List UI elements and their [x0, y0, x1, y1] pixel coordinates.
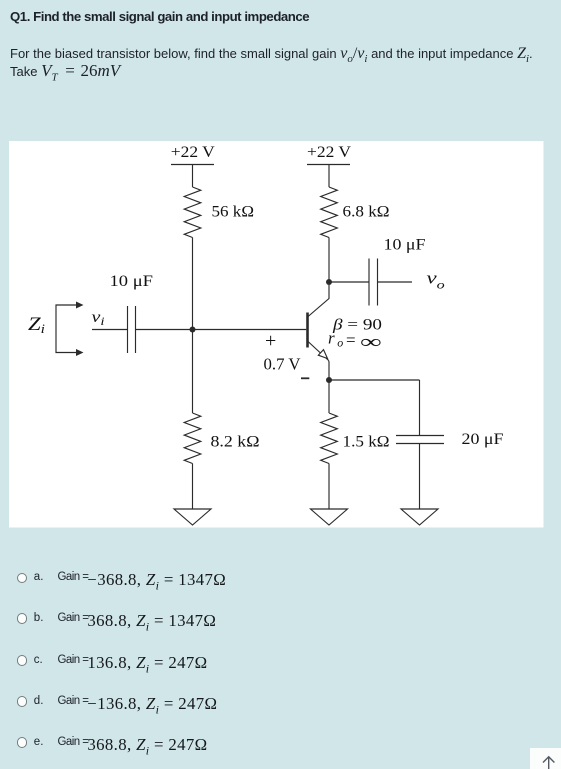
svg-text:o: o — [337, 335, 343, 349]
resistor R1 56k — [184, 187, 201, 238]
label minus — [301, 377, 309, 379]
transistor Q1 emitter arrow — [318, 350, 327, 359]
label Zi — [28, 314, 45, 336]
label 1.5 kOhm — [343, 434, 390, 451]
svg-text:56 kΩ: 56 kΩ — [212, 204, 255, 221]
label vo — [427, 269, 445, 292]
wire emitter to node — [328, 361, 330, 381]
capacitor C2 10uF output — [368, 259, 370, 306]
label 8.2 kOhm — [211, 434, 260, 451]
label beta = 90 — [332, 317, 382, 334]
supply +22V right label — [307, 144, 351, 161]
wire supply-left to R1 — [192, 165, 194, 188]
svg-text:+22 V: +22 V — [307, 144, 351, 161]
label 20 uF — [462, 431, 504, 448]
resistor R2 8.2k — [184, 413, 201, 464]
ground middle — [311, 509, 348, 525]
wire R1 to R2 through base node — [192, 238, 194, 414]
wire C2 to output — [378, 281, 413, 283]
svg-text:10 μF: 10 μF — [384, 237, 426, 254]
label plus — [265, 330, 276, 352]
svg-text:20 μF: 20 μF — [462, 431, 504, 448]
svg-text:6.8 kΩ: 6.8 kΩ — [343, 204, 390, 221]
node collector junction — [326, 279, 332, 285]
option d — [0, 692, 561, 716]
option e — [0, 733, 561, 757]
ground left — [174, 509, 211, 525]
wire supply-right to R3 — [328, 165, 330, 188]
transistor Q1 base bar — [306, 313, 309, 348]
svg-text:r: r — [328, 329, 335, 348]
wire collector node to C2 — [329, 281, 369, 283]
option c — [0, 651, 561, 675]
svg-text:+22 V: +22 V — [171, 144, 215, 161]
label 10 uF input — [110, 273, 154, 290]
option a — [0, 568, 561, 592]
wire R3 to collector node — [328, 238, 330, 283]
title — [10, 9, 309, 24]
label ro = inf — [328, 329, 382, 353]
wire R2 to ground — [192, 464, 194, 510]
label 6.8 kOhm — [343, 204, 390, 221]
svg-text:∞: ∞ — [360, 332, 382, 353]
ground right — [401, 509, 438, 525]
capacitor C3 20uF — [396, 435, 444, 437]
label 10 uF output — [384, 237, 426, 254]
wire C1 to base — [136, 329, 307, 331]
paragraph — [10, 45, 558, 80]
node emitter junction — [326, 377, 332, 383]
label 0.7 V — [264, 354, 302, 373]
wire down to C3 — [419, 380, 421, 436]
label vi — [92, 309, 105, 328]
wire C3 to ground — [419, 444, 421, 510]
svg-text:=: = — [346, 330, 356, 349]
svg-text:1.5 kΩ: 1.5 kΩ — [343, 434, 390, 451]
option b — [0, 609, 561, 633]
label 56 kOhm — [212, 204, 255, 221]
wire R4 to ground — [328, 464, 330, 510]
wire emitter node to C3 branch — [329, 379, 420, 381]
transistor Q1 collector — [308, 285, 330, 317]
supply +22V right bar — [307, 164, 350, 166]
supply +22V left label — [171, 144, 215, 161]
capacitor C1 10uF — [127, 306, 129, 353]
scroll-top button — [530, 748, 561, 769]
wire emitter node to R4 — [328, 380, 330, 413]
supply +22V left bar — [171, 164, 214, 166]
svg-text:+: + — [265, 330, 276, 352]
svg-text:0.7 V: 0.7 V — [264, 354, 302, 373]
svg-text:8.2 kΩ: 8.2 kΩ — [211, 434, 260, 451]
Zi bracket with arrows — [56, 305, 77, 353]
svg-text:10 μF: 10 μF — [110, 273, 154, 290]
transistor Q1 emitter — [308, 341, 329, 361]
wire input to C1 — [92, 329, 128, 331]
resistor R3 6.8k — [321, 187, 338, 238]
node base-divider junction — [190, 327, 196, 333]
resistor R4 1.5k — [321, 413, 338, 464]
